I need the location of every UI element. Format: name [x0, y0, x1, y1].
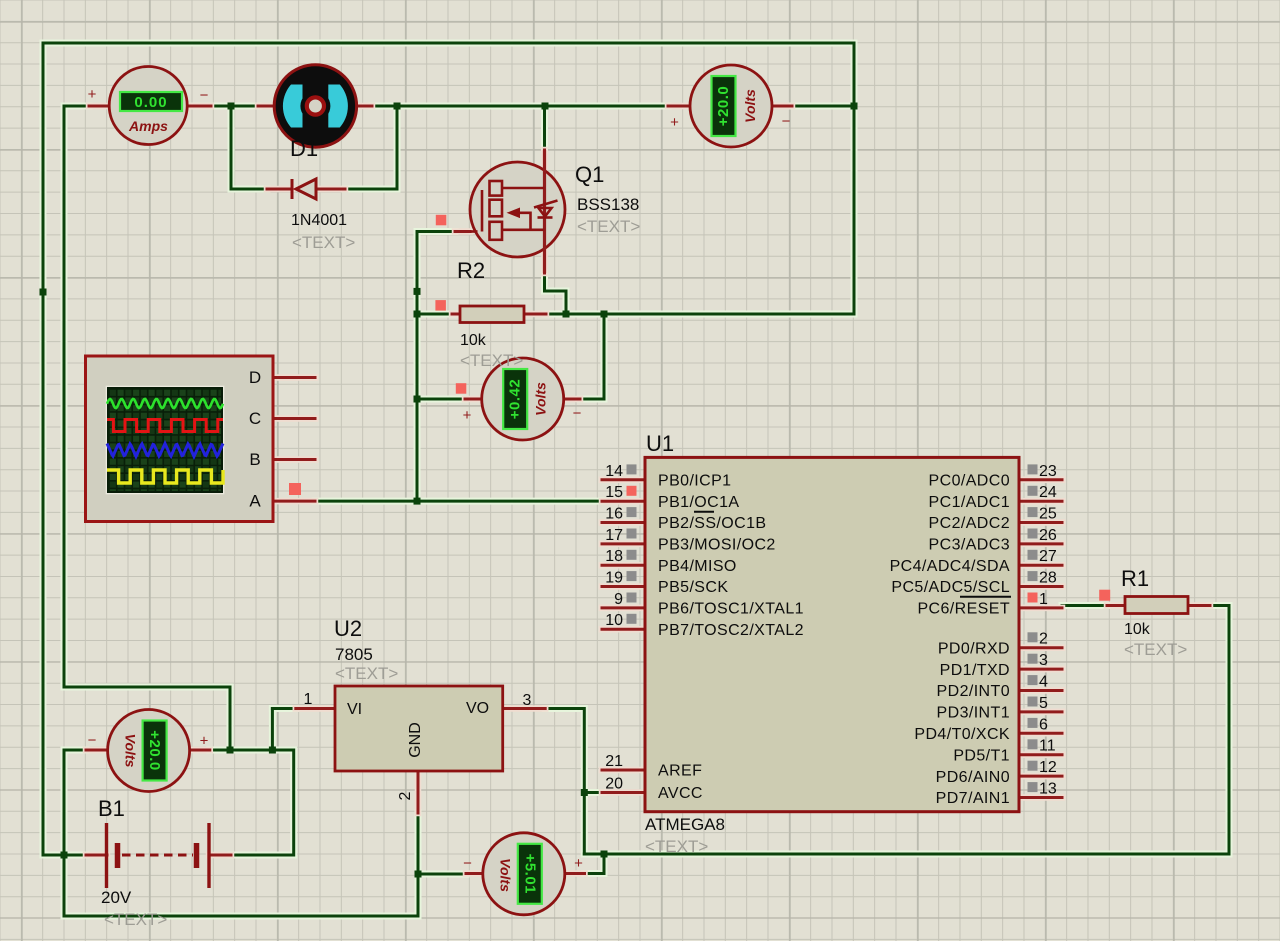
svg-text:+: + — [670, 114, 679, 131]
svg-text:−: − — [200, 87, 209, 104]
svg-text:PB2/SS/OC1B: PB2/SS/OC1B — [658, 515, 766, 532]
svg-text:10k: 10k — [460, 332, 487, 349]
svg-text:B1: B1 — [98, 796, 125, 821]
svg-text:16: 16 — [605, 506, 623, 523]
svg-text:21: 21 — [605, 753, 623, 770]
svg-text:PD1/TXD: PD1/TXD — [940, 662, 1010, 679]
svg-text:19: 19 — [605, 570, 623, 587]
svg-text:<TEXT>: <TEXT> — [460, 351, 523, 370]
svg-text:PC6/RESET: PC6/RESET — [917, 601, 1010, 618]
svg-text:VO: VO — [466, 700, 489, 717]
svg-text:PC2/ADC2: PC2/ADC2 — [929, 515, 1010, 532]
svg-text:10: 10 — [605, 612, 623, 629]
svg-text:<TEXT>: <TEXT> — [104, 910, 167, 929]
svg-text:+20.0: +20.0 — [146, 730, 163, 770]
svg-text:−: − — [782, 113, 791, 130]
svg-text:13: 13 — [1039, 781, 1057, 798]
svg-text:−: − — [573, 405, 582, 422]
svg-text:R1: R1 — [1121, 566, 1149, 591]
svg-text:28: 28 — [1039, 570, 1057, 587]
svg-text:PC4/ADC4/SDA: PC4/ADC4/SDA — [890, 558, 1010, 575]
svg-text:+: + — [463, 407, 472, 424]
svg-text:20: 20 — [605, 776, 623, 793]
svg-text:17: 17 — [605, 527, 623, 544]
svg-text:Volts: Volts — [123, 734, 139, 768]
svg-text:BSS138: BSS138 — [577, 195, 639, 214]
svg-text:3: 3 — [523, 692, 532, 709]
svg-text:23: 23 — [1039, 463, 1057, 480]
svg-text:<TEXT>: <TEXT> — [645, 837, 708, 856]
svg-text:D: D — [249, 368, 261, 387]
svg-text:11: 11 — [1039, 738, 1056, 755]
svg-text:PD4/T0/XCK: PD4/T0/XCK — [914, 726, 1010, 743]
svg-text:VI: VI — [347, 701, 362, 718]
svg-text:3: 3 — [1039, 652, 1048, 669]
svg-text:AVCC: AVCC — [658, 785, 703, 802]
svg-text:PB3/MOSI/OC2: PB3/MOSI/OC2 — [658, 537, 776, 554]
svg-text:4: 4 — [1039, 674, 1048, 691]
svg-text:1: 1 — [1039, 591, 1048, 608]
svg-text:PB7/TOSC2/XTAL2: PB7/TOSC2/XTAL2 — [658, 622, 804, 639]
svg-text:+: + — [574, 855, 583, 872]
svg-text:PB6/TOSC1/XTAL1: PB6/TOSC1/XTAL1 — [658, 601, 804, 618]
svg-text:PB0/ICP1: PB0/ICP1 — [658, 473, 731, 490]
svg-text:26: 26 — [1039, 527, 1057, 544]
svg-text:D1: D1 — [290, 136, 318, 161]
svg-text:20V: 20V — [101, 888, 132, 907]
svg-text:PB4/MISO: PB4/MISO — [658, 558, 737, 575]
svg-text:A: A — [249, 492, 261, 511]
svg-text:PC0/ADC0: PC0/ADC0 — [929, 473, 1010, 490]
svg-text:+: + — [88, 86, 97, 103]
svg-text:1: 1 — [304, 691, 313, 708]
svg-text:ATMEGA8: ATMEGA8 — [645, 815, 725, 834]
svg-text:2: 2 — [1039, 631, 1048, 648]
svg-text:7805: 7805 — [335, 645, 373, 664]
svg-text:<TEXT>: <TEXT> — [577, 217, 640, 236]
svg-text:2: 2 — [397, 791, 414, 800]
svg-text:PC3/ADC3: PC3/ADC3 — [929, 537, 1010, 554]
svg-text:PB5/SCK: PB5/SCK — [658, 579, 728, 596]
svg-text:PD3/INT1: PD3/INT1 — [937, 705, 1010, 722]
svg-text:PC1/ADC1: PC1/ADC1 — [929, 494, 1010, 511]
svg-text:U2: U2 — [334, 616, 362, 641]
svg-text:AREF: AREF — [658, 763, 702, 780]
svg-text:PD2/INT0: PD2/INT0 — [937, 683, 1010, 700]
svg-text:PD6/AIN0: PD6/AIN0 — [936, 769, 1010, 786]
svg-text:<TEXT>: <TEXT> — [335, 664, 398, 683]
svg-text:9: 9 — [614, 591, 623, 608]
svg-text:<TEXT>: <TEXT> — [292, 233, 355, 252]
svg-text:+20.0: +20.0 — [715, 86, 732, 126]
svg-text:PD0/RXD: PD0/RXD — [938, 640, 1010, 657]
svg-text:C: C — [249, 409, 261, 428]
svg-text:10k: 10k — [1124, 621, 1151, 638]
svg-text:18: 18 — [605, 548, 623, 565]
svg-text:12: 12 — [1039, 759, 1057, 776]
svg-text:B: B — [249, 450, 260, 469]
svg-text:PC5/ADC5/SCL: PC5/ADC5/SCL — [891, 579, 1010, 596]
svg-text:U1: U1 — [646, 431, 674, 456]
svg-text:5: 5 — [1039, 695, 1048, 712]
svg-text:+0.42: +0.42 — [507, 379, 524, 419]
svg-text:−: − — [463, 855, 472, 872]
svg-text:<TEXT>: <TEXT> — [1124, 640, 1187, 659]
svg-text:+: + — [200, 733, 209, 750]
svg-text:Q1: Q1 — [575, 162, 604, 187]
svg-text:15: 15 — [605, 484, 623, 501]
svg-text:+5.01: +5.01 — [521, 854, 538, 894]
svg-text:14: 14 — [605, 463, 623, 480]
svg-text:R2: R2 — [457, 258, 485, 283]
svg-text:PD5/T1: PD5/T1 — [953, 747, 1010, 764]
svg-text:PB1/OC1A: PB1/OC1A — [658, 494, 739, 511]
svg-text:1N4001: 1N4001 — [291, 212, 347, 229]
svg-text:Volts: Volts — [533, 382, 549, 416]
svg-text:PD7/AIN1: PD7/AIN1 — [936, 790, 1010, 807]
svg-text:0.00: 0.00 — [134, 94, 167, 111]
svg-text:Amps: Amps — [128, 118, 168, 134]
svg-text:6: 6 — [1039, 716, 1048, 733]
svg-text:24: 24 — [1039, 484, 1057, 501]
svg-text:GND: GND — [407, 722, 424, 758]
svg-text:27: 27 — [1039, 548, 1057, 565]
svg-text:Volts: Volts — [742, 89, 758, 123]
svg-text:25: 25 — [1039, 506, 1057, 523]
svg-text:Volts: Volts — [498, 858, 514, 892]
svg-text:−: − — [88, 732, 97, 749]
